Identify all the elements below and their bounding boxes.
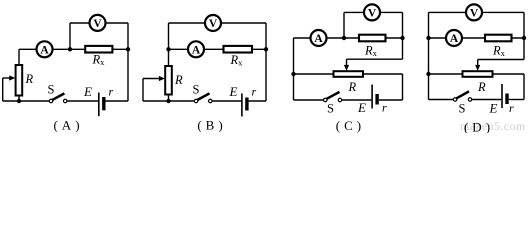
ammeter A (C)	[311, 30, 327, 46]
voltmeter V (D)	[466, 4, 482, 20]
wire ammeter row (A)	[19, 48, 128, 50]
ammeter A (A)	[37, 41, 53, 57]
wire bottom row right (C)	[379, 99, 403, 101]
wire potentiometer row (D)	[429, 73, 525, 75]
wire right vertical upper (C)	[402, 12, 404, 59]
switch S (C)	[324, 92, 342, 102]
node junction R bottom (B)	[166, 99, 170, 103]
svg-text:V: V	[368, 8, 377, 20]
wire right vertical upper (D)	[523, 12, 525, 59]
wire right vertical lower (C)	[402, 74, 404, 100]
wire R bottom to battery row (A)	[18, 96, 20, 102]
ammeter A (B)	[188, 41, 204, 57]
svg-text:maken5.com: maken5.com	[460, 119, 526, 133]
wire top V-loop (A)	[70, 22, 128, 24]
wire bottom row right (D)	[509, 99, 524, 101]
wire top V-loop (C)	[344, 11, 403, 13]
node junction V-loop left (B)	[166, 47, 170, 51]
wire slider left vertical (B)	[142, 79, 144, 102]
svg-text:r: r	[109, 85, 114, 99]
wire bottom row right (B)	[249, 100, 267, 102]
svg-text:S: S	[327, 102, 334, 116]
switch S (B)	[194, 93, 212, 102]
wire slider horizontal (C)	[347, 58, 403, 60]
svg-text:V: V	[470, 8, 479, 20]
node junction Rx right (C)	[400, 36, 404, 40]
voltmeter V (B)	[205, 15, 221, 31]
wire bottom row left (A)	[3, 100, 50, 102]
wire slider horizontal (D)	[478, 59, 524, 61]
wire potentiometer row (C)	[294, 73, 403, 75]
svg-text:A: A	[192, 45, 201, 57]
svg-text:V: V	[93, 18, 102, 30]
switch S (A)	[49, 93, 67, 102]
wire left branch down to R top (A)	[18, 49, 20, 65]
svg-text:(C): (C)	[336, 118, 361, 133]
svg-text:A: A	[314, 33, 323, 45]
wire R bottom to battery row (B)	[168, 95, 170, 102]
wire V-loop left vertical (C)	[343, 12, 345, 38]
battery E r (B)	[242, 94, 247, 117]
potentiometer R (C)	[334, 71, 364, 77]
node junction R left (D)	[426, 72, 430, 76]
node junction V-loop right (B)	[264, 47, 268, 51]
node junction V-left on ammeter row (D)	[426, 36, 430, 40]
wire right vertical (A)	[127, 23, 129, 101]
switch S (D)	[453, 91, 471, 101]
voltmeter V (C)	[364, 4, 380, 20]
wire bottom row left (B)	[143, 100, 194, 102]
svg-text:(D): (D)	[464, 120, 490, 134]
svg-text:E: E	[489, 101, 498, 116]
wire bottom row left (C)	[294, 99, 324, 101]
node junction Rx right (D)	[522, 36, 526, 40]
wire right vertical (B)	[265, 23, 267, 101]
battery E r (C)	[372, 85, 377, 109]
wire ammeter row (B)	[169, 48, 267, 50]
rheostat slider arrow (A)	[3, 75, 16, 80]
resistor Rx (B)	[224, 46, 253, 53]
wire ammeter row (D)	[429, 37, 525, 39]
svg-text:S: S	[48, 83, 55, 97]
wire bottom row mid (B)	[212, 100, 241, 102]
node junction R left (C)	[291, 72, 295, 76]
svg-text:r: r	[252, 85, 257, 99]
voltmeter V (A)	[90, 15, 106, 31]
rheostat R (B)	[165, 66, 172, 95]
rheostat slider arrow (B)	[143, 76, 165, 81]
potentiometer slider arrow (D)	[475, 60, 480, 72]
wire bottom row mid (D)	[472, 99, 501, 101]
wire top V-loop (B)	[169, 22, 267, 24]
svg-text:E: E	[83, 84, 92, 99]
resistor Rx (A)	[85, 46, 112, 53]
battery E r (A)	[99, 93, 104, 117]
svg-text:E: E	[357, 100, 366, 115]
svg-text:R: R	[25, 72, 34, 86]
svg-text:R: R	[174, 73, 183, 87]
svg-text:r: r	[382, 101, 387, 115]
wire bottom row mid (C)	[342, 99, 372, 101]
wire left vertical (D)	[428, 38, 430, 100]
ammeter A (D)	[446, 30, 462, 46]
wire V-loop left vertical (A)	[69, 23, 71, 49]
node junction left of Rx (A)	[68, 47, 72, 51]
svg-text:(A): (A)	[53, 118, 79, 133]
wire right vertical lower (D)	[523, 74, 525, 100]
svg-text:A: A	[40, 45, 49, 57]
svg-text:V: V	[209, 18, 218, 30]
potentiometer slider arrow (C)	[344, 59, 349, 71]
svg-text:S: S	[459, 102, 466, 116]
resistor Rx (D)	[485, 35, 512, 42]
svg-text:R: R	[477, 80, 486, 94]
wire top V-loop (D)	[429, 11, 525, 13]
wire bottom row left (D)	[429, 99, 454, 101]
wire bottom row mid (A)	[67, 100, 98, 102]
node junction V-left on ammeter row (C)	[342, 36, 346, 40]
svg-text:S: S	[193, 83, 200, 97]
svg-text:E: E	[229, 84, 238, 99]
wire down to R top (B)	[168, 49, 170, 66]
node junction right of Rx (A)	[126, 47, 130, 51]
wire ammeter row (C)	[294, 37, 403, 39]
potentiometer R (D)	[463, 71, 493, 77]
svg-text:R: R	[348, 80, 357, 94]
wire bottom row right (A)	[105, 100, 128, 102]
wire V-loop left vertical (B)	[168, 23, 170, 49]
resistor Rx (C)	[359, 35, 386, 42]
svg-text:(B): (B)	[197, 118, 222, 133]
battery E r (D)	[502, 84, 507, 108]
svg-text:r: r	[509, 101, 514, 115]
wire V-loop left vertical (D)	[428, 12, 430, 38]
rheostat R (A)	[16, 65, 23, 96]
svg-text:A: A	[450, 33, 459, 45]
wire slider left vertical (A)	[2, 78, 4, 101]
wire left vertical (C)	[293, 38, 295, 100]
node junction R bottom (A)	[17, 99, 21, 103]
